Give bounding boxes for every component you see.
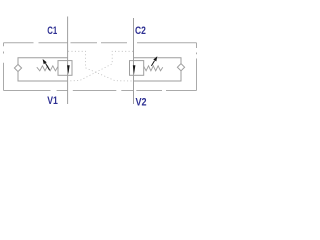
check valve V2 (diamond, right loop)	[177, 64, 184, 71]
adjustment arrow on U1 spring (black)	[43, 59, 50, 70]
valve body U2 (right square)	[130, 61, 144, 76]
svg-text:C2: C2	[135, 25, 146, 37]
spring of U2 (right zigzag)	[144, 66, 163, 71]
pilot line from C2 to left valve (dotted)	[68, 51, 133, 81]
enclosure boundary (chain line box)	[4, 43, 197, 91]
spring of U1 (left zigzag)	[37, 66, 58, 71]
wire: left bypass loop	[18, 58, 68, 81]
check valve V1 (diamond, left loop)	[14, 64, 21, 71]
adjustment arrow on U2 spring (black)	[151, 56, 157, 66]
svg-text:C1: C1	[47, 25, 57, 37]
svg-text:V1: V1	[47, 95, 58, 107]
wire: main line C1-V1	[67, 17, 69, 105]
wire: main line C2-V2	[133, 18, 135, 104]
wire: right bypass loop	[134, 58, 182, 81]
valve body U1 (left square)	[58, 61, 72, 76]
svg-text:V2: V2	[136, 97, 147, 109]
pilot line from C1 to right valve (dotted)	[68, 51, 133, 81]
flow arrow in U2 (black wedge down)	[133, 65, 136, 74]
flow arrow in U1 (black wedge down)	[67, 65, 70, 74]
